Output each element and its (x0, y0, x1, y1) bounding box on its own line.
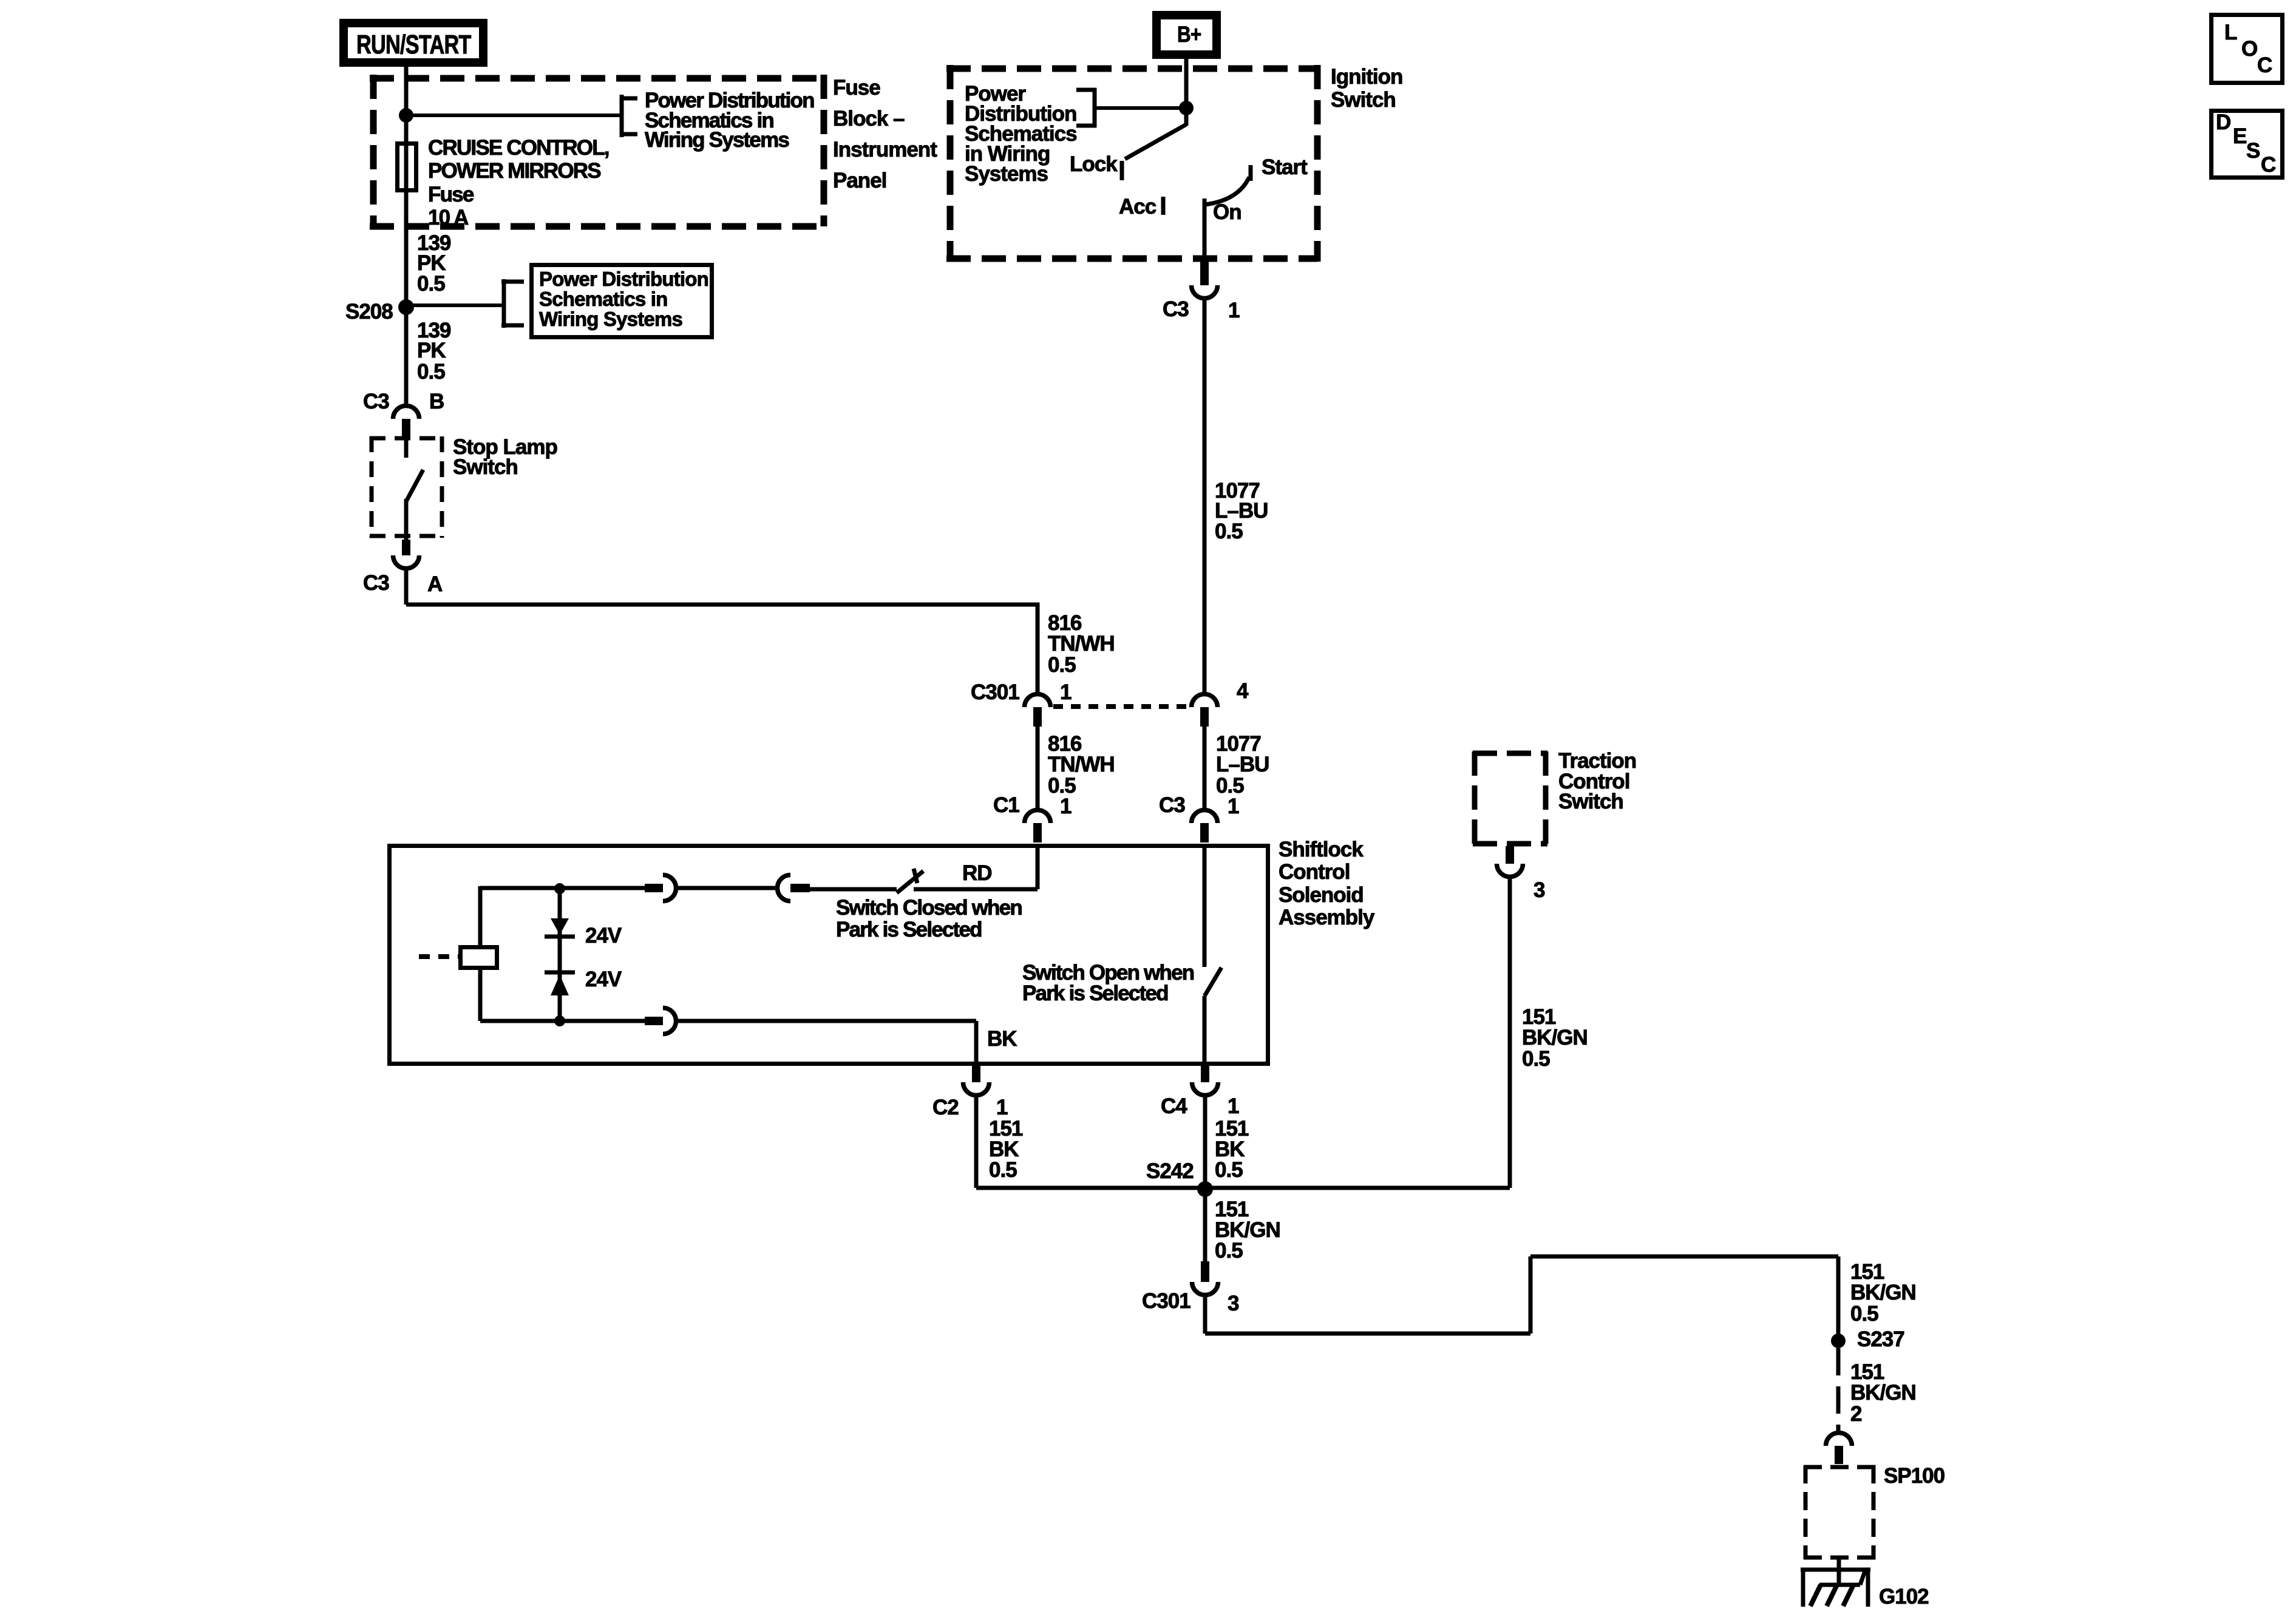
svg-text:Instrument: Instrument (833, 138, 937, 161)
svg-text:Solenoid: Solenoid (1279, 883, 1364, 907)
svg-text:A: A (427, 572, 443, 596)
svg-text:0.5: 0.5 (1850, 1302, 1878, 1326)
svg-text:2: 2 (1850, 1402, 1862, 1426)
svg-text:1: 1 (1060, 795, 1072, 818)
svg-text:BK/GN: BK/GN (1850, 1381, 1916, 1405)
svg-text:C4: C4 (1161, 1094, 1187, 1118)
svg-text:1: 1 (996, 1096, 1008, 1119)
svg-text:24V: 24V (585, 924, 622, 947)
svg-text:24V: 24V (585, 968, 622, 991)
svg-text:Control: Control (1279, 860, 1350, 884)
svg-text:S242: S242 (1146, 1159, 1194, 1183)
svg-text:1: 1 (1228, 795, 1239, 818)
svg-text:0.5: 0.5 (1215, 1158, 1243, 1182)
svg-text:Panel: Panel (833, 169, 886, 192)
svg-text:0.5: 0.5 (417, 360, 445, 384)
svg-text:E: E (2233, 124, 2246, 148)
svg-text:4: 4 (1237, 679, 1249, 703)
svg-text:1: 1 (1228, 299, 1240, 322)
svg-text:C3: C3 (363, 390, 389, 413)
svg-text:0.5: 0.5 (1048, 653, 1076, 677)
svg-text:S237: S237 (1857, 1327, 1904, 1351)
svg-text:TN/WH: TN/WH (1048, 753, 1115, 776)
svg-text:0.5: 0.5 (417, 272, 445, 296)
svg-text:C3: C3 (363, 571, 389, 595)
svg-text:L–BU: L–BU (1216, 753, 1269, 776)
svg-text:Fuse: Fuse (428, 183, 474, 206)
svg-text:Power Distribution: Power Distribution (539, 268, 708, 290)
svg-text:10 A: 10 A (428, 206, 469, 229)
svg-text:C: C (2257, 53, 2272, 77)
svg-text:Block –: Block – (833, 107, 905, 131)
svg-text:G102: G102 (1879, 1585, 1929, 1609)
svg-text:Shiftlock: Shiftlock (1279, 838, 1364, 861)
svg-text:CRUISE CONTROL,: CRUISE CONTROL, (428, 136, 609, 160)
svg-text:Park is Selected: Park is Selected (836, 918, 982, 941)
svg-text:0.5: 0.5 (1215, 1239, 1243, 1263)
svg-text:C3: C3 (1163, 297, 1189, 321)
svg-text:1: 1 (1228, 1094, 1239, 1118)
svg-text:L: L (2224, 21, 2237, 44)
svg-text:D: D (2216, 110, 2230, 134)
svg-text:BK/GN: BK/GN (1850, 1281, 1916, 1304)
svg-text:SP100: SP100 (1884, 1464, 1945, 1488)
svg-text:3: 3 (1228, 1292, 1239, 1315)
svg-text:BK: BK (987, 1027, 1017, 1051)
svg-text:Ignition: Ignition (1331, 65, 1402, 89)
svg-text:Start: Start (1262, 155, 1308, 179)
svg-text:BK/GN: BK/GN (1522, 1026, 1588, 1049)
svg-text:0.5: 0.5 (989, 1158, 1017, 1182)
svg-text:Acc: Acc (1119, 195, 1156, 219)
svg-text:C301: C301 (971, 680, 1019, 704)
svg-text:B+: B+ (1177, 22, 1201, 47)
svg-text:C301: C301 (1142, 1289, 1190, 1313)
svg-text:B: B (429, 390, 444, 413)
svg-text:Park is Selected: Park is Selected (1022, 981, 1168, 1005)
svg-text:Assembly: Assembly (1279, 906, 1375, 929)
svg-text:Switch: Switch (1331, 88, 1396, 112)
svg-text:C: C (2261, 153, 2276, 177)
svg-text:Fuse: Fuse (833, 76, 880, 100)
svg-text:POWER MIRRORS: POWER MIRRORS (428, 159, 600, 183)
svg-text:Switch: Switch (453, 455, 518, 479)
svg-text:RD: RD (962, 861, 992, 885)
svg-text:TN/WH: TN/WH (1048, 632, 1115, 656)
svg-text:Lock: Lock (1070, 152, 1118, 176)
svg-text:Schematics in: Schematics in (539, 288, 668, 310)
svg-text:0.5: 0.5 (1215, 520, 1243, 543)
svg-text:C3: C3 (1159, 793, 1185, 817)
svg-text:PK: PK (417, 339, 446, 362)
svg-text:Wiring Systems: Wiring Systems (645, 128, 789, 152)
svg-text:O: O (2241, 37, 2257, 61)
svg-text:Systems: Systems (965, 162, 1048, 186)
svg-text:S208: S208 (345, 300, 393, 324)
svg-text:0.5: 0.5 (1522, 1047, 1550, 1071)
svg-text:C1: C1 (993, 793, 1019, 817)
svg-text:1: 1 (1060, 680, 1072, 704)
svg-text:Wiring Systems: Wiring Systems (539, 308, 682, 330)
svg-text:RUN/START: RUN/START (356, 30, 471, 59)
svg-text:3: 3 (1533, 878, 1545, 902)
svg-text:Switch: Switch (1558, 790, 1623, 813)
svg-text:C2: C2 (932, 1096, 959, 1119)
svg-text:Switch Closed when: Switch Closed when (836, 896, 1022, 920)
svg-text:S: S (2246, 139, 2260, 163)
